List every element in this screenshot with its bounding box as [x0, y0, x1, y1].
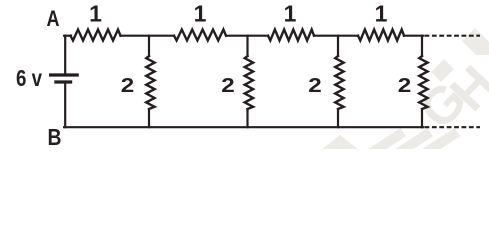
svg-text:2: 2 [398, 74, 412, 97]
resistor R6 (2 ohm shunt) [245, 56, 253, 109]
dashed continuation wire (bottom rail to infinity) [425, 126, 481, 128]
svg-text:6 v: 6 v [16, 65, 42, 91]
svg-text:2: 2 [221, 74, 235, 97]
svg-text:A: A [47, 6, 60, 31]
wire: top segment from R1 to node 1 junction [121, 35, 175, 37]
svg-text:1: 1 [375, 1, 388, 27]
svg-text:2: 2 [308, 74, 322, 97]
wire: node 2 top stub [246, 36, 248, 56]
resistor R2 (1 ohm series) [174, 30, 226, 41]
wire: bottom rail from node B to node 4 [64, 126, 423, 128]
svg-text:2: 2 [121, 74, 135, 97]
wire: top segment from node A to resistor R1 [64, 35, 71, 37]
resistor R1 (1 ohm series) [71, 30, 121, 41]
svg-text:1: 1 [194, 1, 207, 27]
svg-text:B: B [48, 124, 62, 149]
dashed continuation wire (top rail to infinity) [425, 35, 481, 37]
battery V1 (6 V) long positive plate [49, 73, 79, 76]
resistor R7 (2 ohm shunt) [335, 56, 343, 109]
wire: left vertical from node A down to battery + terminal [64, 36, 66, 74]
resistor R3 (1 ohm series) [268, 30, 314, 41]
resistor R4 (1 ohm series) [358, 30, 404, 41]
wire: node 1 bottom stub [148, 109, 150, 127]
resistor R8 (2 ohm shunt) [419, 56, 427, 109]
wire: top segment from R2 to node 2 junction [226, 35, 268, 37]
wire: top segment from R3 to node 3 junction [314, 35, 358, 37]
wire: node 1 top stub [148, 36, 150, 56]
wire: node 2 bottom stub [246, 109, 248, 127]
svg-text:1: 1 [89, 1, 102, 27]
resistor R5 (2 ohm shunt) [146, 56, 154, 109]
wire: left vertical from battery - terminal down to node B [64, 84, 66, 128]
battery V1 (6 V) short negative plate [54, 80, 72, 83]
wire: node 3 top stub [337, 36, 339, 56]
svg-text:1: 1 [284, 1, 297, 27]
wire: top segment from R4 to node 4 junction [404, 35, 423, 37]
wire: node 4 top stub [421, 36, 423, 56]
wire: node 4 bottom stub [421, 109, 423, 127]
wire: node 3 bottom stub [337, 109, 339, 127]
